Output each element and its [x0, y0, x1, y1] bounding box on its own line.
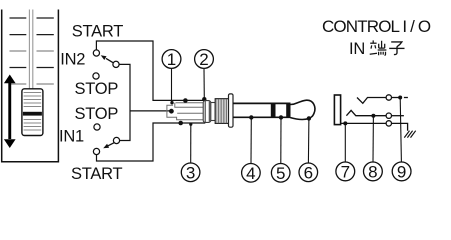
numbered circle 2	[195, 50, 214, 69]
svg-text:STOP: STOP	[75, 105, 119, 123]
jack bushing	[334, 95, 340, 125]
plug shaft sleeve outline	[233, 103, 291, 117]
wire branch from commons to plug ring lug	[130, 110, 170, 112]
junction dot on sleeve lug	[178, 121, 183, 126]
numbered circle 3	[181, 163, 200, 182]
svg-text:IN: IN	[349, 40, 365, 58]
jack tip wire to node 9	[392, 97, 401, 99]
svg-text:8: 8	[368, 162, 377, 181]
jack ring spring contact	[346, 110, 386, 115]
callout dot 1	[170, 101, 173, 104]
jack tip stub contact	[404, 97, 408, 99]
wire to ground	[392, 123, 408, 130]
svg-text:7: 7	[341, 162, 350, 181]
plug knurled grip	[215, 99, 228, 124]
svg-text:START: START	[71, 165, 122, 183]
numbered circle 4	[242, 164, 261, 183]
switch SW1 open contact (STOP)	[93, 73, 99, 79]
callout dot 5	[279, 115, 283, 119]
wire node8 to circle 8	[372, 116, 374, 162]
numbered circle 9	[392, 162, 411, 181]
wire from SW1 throw to plug tip lug	[96, 41, 204, 100]
callout dot 3	[189, 123, 192, 126]
jack ring contact circle	[386, 113, 391, 118]
svg-text:9: 9	[397, 162, 406, 181]
chassis ground symbol	[404, 131, 415, 138]
callout dot 6	[307, 116, 311, 120]
jack sleeve contact circle	[386, 121, 391, 126]
svg-text:STOP: STOP	[75, 80, 119, 98]
callout line 5	[280, 118, 282, 164]
numbered circle 7	[336, 162, 355, 181]
node 8 junction dot	[371, 114, 375, 118]
callout line 3	[190, 124, 192, 163]
plug tip outline	[290, 100, 315, 119]
solder junction dot on tip lug	[183, 98, 188, 103]
svg-text:IN1: IN1	[59, 127, 84, 145]
junction dot on ring lug	[169, 109, 174, 114]
numbered circle 5	[271, 164, 290, 183]
numbered circle 1	[162, 50, 181, 69]
svg-text:6: 6	[304, 163, 313, 182]
fader knob	[22, 89, 43, 136]
callout line 6	[307, 119, 310, 164]
fader track	[29, 10, 32, 89]
numbered circle 6	[299, 163, 318, 182]
switch SW2 open contact (STOP)	[94, 124, 100, 130]
svg-text:IN2: IN2	[60, 50, 85, 68]
plug collar ring 2	[211, 103, 215, 121]
wire from SW2 throw to plug sleeve lug	[97, 123, 206, 161]
fader scale ticks	[10, 18, 54, 84]
svg-text:3: 3	[186, 163, 195, 182]
switch SW2 lever arrow	[103, 143, 114, 148]
jack ring stub	[392, 115, 404, 117]
jack sleeve wire	[341, 122, 387, 124]
switch SW1 common contact	[113, 61, 119, 67]
node 7 junction dot	[343, 121, 347, 125]
wire node7 to circle 7	[344, 123, 346, 161]
svg-text:4: 4	[246, 164, 255, 183]
svg-text:CONTROL I / O: CONTROL I / O	[322, 17, 431, 36]
numbered circle 8	[364, 162, 383, 181]
switch SW2 common contact	[113, 137, 119, 143]
plug terminal block outline	[167, 103, 203, 120]
callout line 2	[203, 68, 205, 99]
switch SW2 throw contact (START)	[93, 148, 99, 154]
plug collar ring 1	[203, 101, 211, 123]
node 9 junction dot	[398, 96, 402, 100]
svg-text:5: 5	[276, 164, 285, 183]
switch SW1 throw contact (IN2/START)	[93, 50, 99, 56]
jack tip spring contact	[357, 98, 386, 104]
kanji 端	[370, 40, 387, 55]
up-down arrow	[4, 75, 16, 149]
wire from SW1 common down to SW2 common	[119, 64, 130, 140]
callout dot 4	[249, 115, 253, 119]
kanji 子	[389, 42, 404, 55]
plug washer flange	[229, 94, 234, 127]
jack tip contact circle	[386, 95, 391, 100]
callout dot 2	[202, 97, 206, 101]
svg-text:1: 1	[167, 50, 176, 69]
plug insulator band 2	[286, 103, 290, 118]
callout line 4	[250, 118, 252, 164]
svg-text:2: 2	[199, 50, 208, 69]
wire node9 to circle 9	[400, 98, 401, 162]
plug insulator band 1	[271, 103, 276, 118]
callout line 1	[171, 68, 173, 102]
svg-text:START: START	[72, 22, 123, 40]
switch SW1 lever arrow	[101, 55, 114, 63]
fader box	[2, 10, 59, 162]
